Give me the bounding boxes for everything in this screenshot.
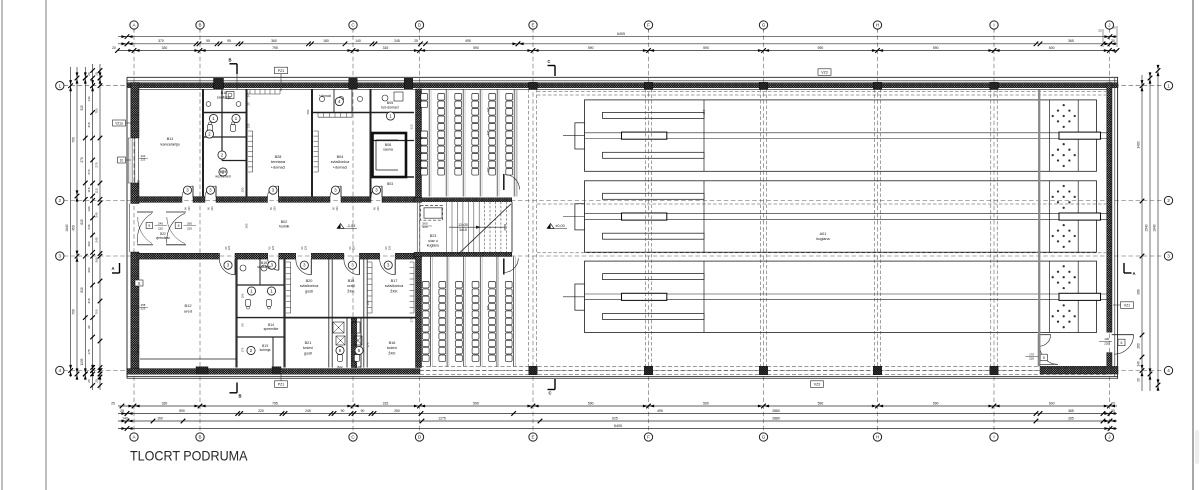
svg-text:P=40: P=40 [137, 345, 141, 353]
svg-text:11: 11 [137, 281, 141, 285]
interior small dims grandstand [410, 97, 491, 322]
svg-text:495: 495 [465, 39, 471, 43]
svg-text:175: 175 [87, 349, 91, 354]
svg-text:20: 20 [112, 46, 116, 50]
svg-text:PZ1: PZ1 [278, 69, 285, 73]
svg-text:±0,00: ±0,00 [555, 224, 564, 228]
svg-text:270: 270 [87, 169, 91, 174]
svg-text:B: B [238, 394, 241, 399]
sanitary fixtures bottom block [240, 265, 362, 361]
svg-text:590: 590 [818, 401, 824, 405]
svg-text:B03: B03 [387, 182, 393, 186]
svg-text:590: 590 [933, 401, 939, 405]
svg-text:9: 9 [148, 224, 150, 228]
scrollbar thumb hint bottom right [1195, 430, 1199, 464]
svg-text:195: 195 [417, 127, 421, 132]
svg-text:140: 140 [87, 96, 91, 101]
svg-text:kuhinja: kuhinja [260, 348, 271, 352]
svg-text:20: 20 [1137, 378, 1141, 382]
svg-text:B09: B09 [220, 170, 226, 174]
right dimension lines [1137, 65, 1161, 391]
wall type tags [113, 67, 1134, 387]
svg-text:220: 220 [271, 245, 275, 250]
svg-text:-1,85: -1,85 [347, 224, 356, 228]
svg-text:E: E [531, 23, 534, 28]
svg-text:J: J [1108, 435, 1110, 440]
bottom exterior wall hatched left section [127, 369, 420, 375]
svg-text:2880: 2880 [772, 416, 780, 420]
svg-text:795: 795 [272, 401, 278, 405]
svg-text:B04: B04 [337, 155, 344, 159]
svg-text:+domaći: +domaći [271, 165, 286, 169]
stair treads [447, 202, 512, 253]
svg-text:20: 20 [95, 72, 99, 76]
section mark A left [111, 263, 119, 273]
svg-text:95: 95 [206, 39, 210, 43]
section mark C bottom [548, 379, 556, 396]
grandstand left wall lower [416, 252, 422, 367]
corridor wall row2 [137, 197, 422, 203]
svg-text:580: 580 [306, 109, 310, 114]
svg-text:115: 115 [87, 187, 91, 192]
hall exit door 5 vestibule [1025, 334, 1058, 366]
bottom dimension line total [118, 424, 1117, 431]
svg-text:F: F [647, 435, 650, 440]
svg-text:300: 300 [486, 167, 490, 172]
svg-text:330: 330 [162, 46, 168, 50]
grandstand seats lower [422, 282, 512, 362]
svg-text:360: 360 [271, 39, 277, 43]
top exterior wall hatched [127, 83, 1118, 88]
top row room partition walls [203, 89, 414, 197]
benches in changing rooms [140, 90, 414, 360]
svg-text:B06: B06 [385, 143, 391, 147]
svg-text:B10: B10 [221, 91, 227, 95]
svg-text:B22: B22 [337, 365, 343, 369]
svg-text:700: 700 [95, 108, 99, 113]
svg-text:250: 250 [394, 409, 400, 413]
svg-text:260: 260 [95, 257, 99, 262]
pinsetter partition grey line [1038, 89, 1040, 363]
svg-text:F: F [647, 23, 650, 28]
svg-text:365: 365 [1068, 39, 1074, 43]
svg-text:20: 20 [1111, 401, 1115, 405]
svg-text:190: 190 [87, 206, 91, 211]
svg-text:220: 220 [1104, 342, 1109, 346]
svg-text:1135: 1135 [80, 358, 84, 365]
svg-text:1540: 1540 [1145, 224, 1149, 232]
svg-text:220: 220 [158, 226, 163, 230]
svg-text:220: 220 [1029, 357, 1034, 361]
section mark A right [1124, 263, 1136, 276]
svg-text:VZ1: VZ1 [1124, 303, 1131, 307]
svg-text:980: 980 [1137, 289, 1141, 295]
svg-text:260: 260 [187, 222, 192, 226]
svg-text:VZ3: VZ3 [814, 382, 821, 386]
svg-text:240: 240 [95, 212, 99, 217]
svg-text:220: 220 [387, 245, 391, 250]
svg-text:I: I [993, 435, 994, 440]
bottom dimension line subtotals [118, 416, 1117, 423]
door leaf dims row2 [184, 206, 380, 211]
svg-text:140: 140 [417, 97, 421, 102]
page edge line left outer [1, 0, 3, 490]
top dimension line axes [112, 46, 1119, 53]
svg-text:90: 90 [241, 323, 245, 327]
svg-text:TLOCRT PODRUMA: TLOCRT PODRUMA [130, 447, 248, 463]
svg-text:G: G [762, 23, 766, 28]
svg-text:260: 260 [87, 267, 91, 272]
svg-text:20: 20 [95, 379, 99, 383]
svg-text:gosti: gosti [304, 351, 312, 355]
svg-text:25: 25 [120, 409, 124, 413]
svg-text:220: 220 [376, 206, 380, 211]
left exterior wall hatched mid [131, 183, 139, 204]
svg-text:B: B [198, 435, 201, 440]
left dimension lines [65, 64, 102, 390]
svg-text:B05: B05 [387, 101, 393, 105]
svg-text:220: 220 [303, 245, 307, 250]
svg-text:220: 220 [210, 206, 214, 211]
svg-text:tuš-domaći: tuš-domaći [381, 106, 399, 110]
elevation mark -1,85 [337, 224, 357, 229]
svg-text:495: 495 [657, 409, 663, 413]
svg-text:140: 140 [1137, 361, 1141, 367]
svg-text:J: J [1108, 23, 1110, 28]
svg-text:G: G [762, 435, 766, 440]
svg-text:115: 115 [95, 188, 99, 193]
svg-text:A: A [1132, 271, 1135, 276]
svg-text:220: 220 [258, 409, 264, 413]
svg-text:A01: A01 [820, 232, 827, 236]
small door tags in sanitary rooms [205, 97, 394, 354]
svg-text:590: 590 [702, 109, 706, 114]
entrance vestibule doors B22 [137, 212, 186, 245]
svg-text:220: 220 [335, 206, 339, 211]
svg-text:700: 700 [72, 137, 76, 143]
svg-text:6405: 6405 [617, 32, 625, 36]
svg-text:3: 3 [59, 254, 62, 259]
svg-text:240: 240 [87, 224, 91, 229]
hall exterior door 6 on right wall [1099, 335, 1134, 355]
svg-text:2880: 2880 [772, 409, 780, 413]
svg-text:2: 2 [59, 198, 62, 203]
landing boundary line [516, 89, 518, 197]
svg-text:315: 315 [87, 298, 91, 303]
svg-text:175: 175 [241, 347, 245, 352]
svg-text:590: 590 [473, 46, 479, 50]
svg-text:6405: 6405 [614, 424, 622, 428]
top right small dims [1098, 26, 1117, 48]
svg-text:190: 190 [241, 293, 245, 298]
page edge line right [1192, 0, 1194, 490]
svg-text:600: 600 [1049, 401, 1055, 405]
bowling lane pair group 1 [563, 100, 1110, 171]
svg-text:140: 140 [122, 416, 128, 420]
svg-text:B: B [228, 58, 231, 63]
svg-text:795: 795 [272, 46, 278, 50]
grandstand seats upper [421, 94, 513, 176]
svg-text:315: 315 [410, 124, 414, 129]
top dimension line total [118, 32, 1117, 39]
svg-text:240: 240 [158, 222, 163, 226]
svg-text:90: 90 [361, 409, 365, 413]
svg-text:245: 245 [394, 39, 400, 43]
stair lower hatched wall [414, 252, 512, 256]
svg-text:B02: B02 [281, 220, 287, 224]
svg-text:I: I [993, 23, 994, 28]
shower cell hatched divider [351, 319, 357, 368]
left wall window strip [128, 138, 138, 183]
stair break diagonal [459, 204, 511, 254]
svg-text:590: 590 [588, 46, 594, 50]
grandstand door lower right [504, 258, 519, 274]
svg-text:260: 260 [87, 241, 91, 246]
svg-text:590: 590 [473, 401, 479, 405]
svg-text:sanitarije: sanitarije [257, 265, 271, 269]
svg-text:svlačionica: svlačionica [385, 284, 404, 288]
svg-text:1640: 1640 [1153, 224, 1157, 232]
svg-text:B23: B23 [430, 234, 436, 238]
svg-text:4: 4 [59, 368, 62, 373]
svg-text:1: 1 [1167, 83, 1170, 88]
shower cell walls [347, 318, 361, 368]
svg-text:B19: B19 [355, 365, 361, 369]
page edge line left inner [45, 0, 47, 490]
interior small dims rooms [241, 107, 707, 352]
svg-text:20: 20 [1111, 39, 1115, 43]
grid axes dashed lines [64, 28, 1165, 433]
svg-text:330: 330 [162, 401, 168, 405]
grid bubbles left [56, 82, 64, 375]
svg-text:sauna: sauna [383, 148, 393, 152]
svg-text:spremište: spremište [264, 327, 279, 331]
svg-text:615: 615 [80, 219, 84, 225]
mini dims at sanitarije wall [247, 92, 251, 128]
left exterior wall hatched upper [131, 83, 139, 139]
svg-text:220: 220 [187, 206, 191, 211]
bottom row room partition walls [237, 259, 420, 368]
svg-text:1275: 1275 [438, 416, 446, 420]
svg-text:B28: B28 [275, 155, 282, 159]
svg-text:gosti: gosti [305, 289, 313, 293]
svg-text:280: 280 [245, 223, 249, 228]
grandstand door upper right [504, 174, 520, 190]
svg-text:VZ1a: VZ1a [115, 121, 123, 125]
svg-text:ured: ured [347, 284, 355, 288]
bottom dimension line axes [111, 401, 1117, 408]
left exterior wall hatched lower [131, 252, 139, 374]
svg-text:245: 245 [305, 409, 311, 413]
svg-text:hodnik: hodnik [279, 225, 290, 229]
stair vestibule dashed opening [421, 206, 443, 221]
svg-text:B: B [198, 23, 201, 28]
svg-text:vjetrobran: vjetrobran [156, 236, 170, 240]
corridor wall row3 [137, 253, 422, 259]
svg-text:1400: 1400 [1137, 141, 1141, 148]
svg-text:1640: 1640 [65, 224, 69, 232]
svg-text:90: 90 [341, 409, 345, 413]
bowling lane pair group 2 [563, 181, 1110, 252]
svg-text:kancelarija: kancelarija [160, 142, 180, 147]
svg-text:6: 6 [1121, 341, 1123, 345]
svg-text:A: A [111, 266, 114, 271]
svg-text:90: 90 [87, 325, 91, 329]
svg-text:B17: B17 [391, 279, 398, 283]
svg-text:220: 220 [227, 245, 231, 250]
grandstand left wall upper [416, 89, 422, 198]
svg-text:315: 315 [87, 122, 91, 127]
svg-text:12x30: 12x30 [458, 223, 468, 227]
svg-text:260: 260 [1137, 343, 1141, 349]
svg-text:450: 450 [72, 225, 76, 231]
svg-text:+domaći: +domaći [319, 94, 331, 98]
svg-text:95: 95 [227, 39, 231, 43]
svg-text:B12: B12 [184, 303, 192, 308]
svg-text:2: 2 [1167, 198, 1170, 203]
svg-text:180: 180 [323, 39, 329, 43]
svg-text:190: 190 [241, 187, 245, 192]
svg-text:20: 20 [417, 189, 421, 193]
svg-text:kuglanu: kuglanu [427, 244, 440, 248]
svg-text:175: 175 [366, 342, 370, 347]
svg-text:ŽKK: ŽKK [347, 288, 355, 293]
svg-text:615: 615 [80, 287, 84, 293]
svg-text:265: 265 [1068, 416, 1074, 420]
right exterior wall hatched upper [1107, 83, 1112, 333]
svg-text:ulaz u: ulaz u [428, 239, 438, 243]
svg-text:4: 4 [1167, 368, 1170, 373]
svg-text:370: 370 [158, 39, 164, 43]
svg-text:svlačionica: svlačionica [300, 284, 319, 288]
svg-text:275: 275 [410, 317, 414, 322]
sanitary fixtures top block [206, 92, 403, 132]
svg-text:+domaći: +domaći [333, 165, 348, 169]
svg-text:140: 140 [355, 39, 361, 43]
svg-text:ured: ured [184, 309, 192, 314]
svg-text:sanitarije: sanitarije [217, 96, 231, 100]
svg-text:B16: B16 [389, 341, 396, 345]
svg-text:20: 20 [1098, 29, 1102, 33]
section mark B bottom [230, 383, 242, 399]
grid bubbles bottom [130, 433, 1114, 441]
bottom exterior wall hatched right corner [1040, 366, 1118, 374]
svg-text:495: 495 [486, 130, 490, 135]
svg-text:tuševi: tuševi [387, 346, 397, 350]
top dimension line detail [118, 39, 1117, 46]
svg-text:590: 590 [588, 401, 594, 405]
section mark C top [547, 59, 555, 76]
svg-text:300: 300 [417, 162, 421, 167]
svg-text:240: 240 [95, 237, 99, 242]
svg-text:590: 590 [703, 401, 709, 405]
svg-text:tuševi: tuševi [303, 346, 313, 350]
svg-text:ŽKK: ŽKK [388, 350, 396, 355]
svg-text:600: 600 [1049, 46, 1055, 50]
svg-text:25: 25 [247, 102, 251, 106]
svg-text:590: 590 [818, 46, 824, 50]
svg-text:VZ3: VZ3 [821, 70, 828, 74]
svg-text:130: 130 [247, 123, 251, 128]
svg-text:B21: B21 [305, 341, 312, 345]
svg-text:25: 25 [111, 401, 115, 405]
svg-text:165: 165 [366, 300, 370, 305]
svg-text:100: 100 [1104, 337, 1109, 341]
door leaf dims row3 [224, 245, 391, 250]
svg-text:20: 20 [1111, 409, 1115, 413]
svg-text:C: C [547, 59, 550, 64]
svg-text:315: 315 [383, 401, 389, 405]
svg-text:kuglana: kuglana [816, 237, 830, 241]
stair upper hatched wall [414, 198, 512, 202]
svg-text:160: 160 [157, 416, 163, 420]
svg-text:9: 9 [178, 224, 180, 228]
svg-text:3x15: 3x15 [459, 228, 467, 232]
exterior wall outer face lines [127, 77, 1118, 378]
sauna B06 thick walls [373, 133, 407, 177]
svg-text:H: H [876, 23, 879, 28]
svg-text:590: 590 [703, 46, 709, 50]
corridor doors row2 [182, 186, 382, 197]
svg-text:315: 315 [80, 105, 84, 111]
svg-text:E: E [531, 435, 534, 440]
grandstand step lines upper [429, 89, 516, 197]
svg-text:5: 5 [1043, 356, 1045, 360]
section mark B top [228, 58, 237, 90]
svg-text:H: H [876, 435, 879, 440]
svg-text:590: 590 [933, 46, 939, 50]
svg-text:10: 10 [120, 158, 124, 162]
svg-text:625: 625 [612, 416, 618, 420]
svg-text:PZ1: PZ1 [278, 382, 285, 386]
svg-text:220: 220 [352, 245, 356, 250]
bowling lane pair group 3 [563, 261, 1110, 332]
svg-text:270: 270 [95, 162, 99, 167]
svg-text:B18: B18 [348, 279, 355, 283]
svg-text:teretana: teretana [271, 160, 286, 164]
svg-text:3: 3 [1167, 254, 1170, 259]
elevation mark +0,00 [547, 224, 567, 229]
entrance wall face line at vestibule [128, 204, 130, 253]
right wall inner face line [1114, 78, 1116, 377]
svg-text:ŽKK: ŽKK [390, 288, 398, 293]
stair vestibule boundary lines [416, 202, 418, 253]
grandstand step lines lower [431, 257, 516, 367]
corridor doors row3 [220, 259, 396, 275]
svg-text:220: 220 [187, 226, 192, 230]
stair direction arrow [449, 224, 505, 230]
svg-text:25: 25 [414, 39, 418, 43]
svg-text:B20: B20 [306, 279, 313, 283]
svg-text:270: 270 [80, 157, 84, 163]
svg-text:700: 700 [72, 309, 76, 315]
svg-text:20: 20 [87, 379, 91, 383]
grid bubbles right [1164, 82, 1172, 375]
svg-text:P=40: P=40 [137, 180, 141, 188]
svg-text:365: 365 [1068, 409, 1074, 413]
svg-text:1: 1 [59, 83, 62, 88]
stair labels [422, 222, 468, 232]
bottom dimension line detail [118, 409, 1117, 416]
svg-text:svlačionica: svlačionica [331, 160, 350, 164]
svg-text:140: 140 [247, 92, 251, 97]
svg-text:B11: B11 [167, 136, 175, 141]
svg-text:700: 700 [95, 309, 99, 314]
svg-text:590: 590 [179, 409, 185, 413]
svg-text:220: 220 [272, 206, 276, 211]
svg-text:C: C [548, 391, 551, 396]
svg-text:485: 485 [486, 305, 490, 310]
